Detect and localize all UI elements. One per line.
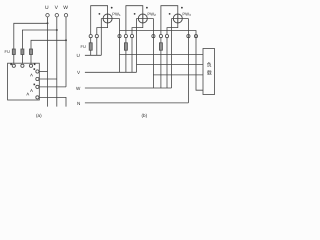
- supply terminal V: [55, 14, 58, 17]
- meter PW3: [173, 14, 182, 23]
- current coil vertical through PW2: [142, 14, 144, 23]
- wire fuse2 to V bus: [125, 50, 127, 72]
- meter PW1: [103, 14, 112, 23]
- voltage tap PW3 hook to W bus: [171, 19, 173, 89]
- polarity dot left PW3: [169, 13, 171, 15]
- wire V drop: [56, 17, 58, 107]
- load box: [203, 49, 215, 95]
- bus W: [85, 87, 172, 89]
- voltage line PW2: [137, 18, 154, 20]
- wire U drop: [47, 17, 49, 107]
- polarity dot above t3: [34, 84, 36, 86]
- fuse phase V: [21, 49, 24, 55]
- polarity dot left PW2: [134, 13, 136, 15]
- voltage drop PW3 to N bus: [187, 19, 189, 103]
- svg-text:V: V: [77, 70, 81, 75]
- svg-text:FU: FU: [81, 44, 86, 49]
- voltage line PW1: [101, 18, 119, 20]
- terminal rail drop: [194, 35, 197, 38]
- svg-text:载: 载: [207, 69, 212, 76]
- polarity dot above t1: [34, 68, 36, 70]
- current loop PW1: [91, 6, 108, 35]
- node W fuse branch: [65, 39, 67, 41]
- voltage drop PW2: [152, 19, 154, 89]
- svg-text:U: U: [45, 5, 49, 11]
- meter terminal 3 top: [29, 64, 32, 67]
- terminal voltage drop 1: [118, 35, 121, 38]
- svg-text:(a): (a): [36, 113, 42, 118]
- wire fuse W to meter: [30, 55, 32, 64]
- current loop PW3: [161, 6, 178, 35]
- wire P1 to fuse unit3: [160, 38, 162, 43]
- bus N: [85, 102, 188, 104]
- polarity dot top PW2: [146, 7, 148, 9]
- polarity dot right of terminal 3: [34, 64, 36, 66]
- node U fuse branch: [47, 22, 49, 24]
- wire P1 to fuse unit1: [90, 38, 92, 43]
- coil mark 1: [30, 74, 32, 77]
- fuse unit1: [89, 43, 92, 50]
- meter terminal 1 top: [12, 64, 15, 67]
- meter terminal t3 right: [36, 85, 39, 88]
- bus U: [85, 54, 101, 56]
- current return PW2: [132, 23, 143, 34]
- wire fuse3 to W bus: [160, 50, 162, 88]
- meter box (a): [8, 63, 40, 100]
- voltage line PW3: [172, 18, 189, 20]
- coil mark 2: [30, 89, 32, 92]
- wire t3 to W drop: [39, 86, 66, 88]
- voltage tap PW2 hook to V bus: [136, 19, 138, 73]
- terminal P1 unit3: [159, 35, 162, 38]
- current loop PW2: [126, 6, 143, 35]
- polarity dot left of terminal 1: [10, 64, 12, 66]
- wire fuse V to meter: [21, 55, 23, 64]
- svg-text:FU: FU: [5, 49, 10, 54]
- wire W drop: [65, 17, 67, 87]
- fuse unit3: [159, 43, 162, 50]
- terminal P2 unit2: [130, 35, 133, 38]
- wire U branch to fuse: [14, 23, 48, 49]
- wire V branch to fuse: [22, 30, 56, 49]
- svg-text:U: U: [77, 53, 80, 58]
- coil mark 3: [27, 93, 29, 96]
- wire P1 to fuse unit2: [125, 38, 127, 43]
- wire fuse U to meter: [13, 55, 15, 64]
- neutral rail of voltage coils: [120, 31, 204, 91]
- meter terminal t4 right: [36, 96, 39, 99]
- wire P2 unit2 to V bus: [131, 38, 133, 73]
- node V fuse branch: [56, 29, 58, 31]
- meter terminal t2 right: [36, 77, 39, 80]
- fuse phase W: [30, 49, 33, 55]
- meter PW2: [138, 14, 147, 23]
- wire P2 unit3 to W bus: [166, 38, 168, 88]
- current coil vertical through PW1: [107, 14, 109, 23]
- terminal voltage drop 2: [152, 35, 155, 38]
- wire t1 to U drop: [39, 71, 48, 73]
- wire fuse1 to U bus: [90, 50, 92, 55]
- svg-text:(b): (b): [142, 113, 148, 118]
- polarity dot top PW1: [111, 7, 113, 9]
- wire W branch to fuse: [31, 40, 66, 49]
- voltage tap PW1 to U bus: [100, 19, 102, 56]
- voltage drop PW1: [119, 19, 121, 73]
- svg-text:W: W: [63, 5, 68, 11]
- load line 3 to box: [153, 74, 203, 76]
- meter terminal t1 right: [36, 70, 39, 73]
- current coil vertical through PW3: [177, 14, 179, 23]
- current return PW3: [167, 23, 178, 34]
- terminal voltage drop 3: [187, 35, 190, 38]
- load line 2 to box: [137, 63, 204, 65]
- terminal P1 unit1: [89, 35, 92, 38]
- wire t4 neutral out: [39, 97, 66, 106]
- terminal P2 unit3: [165, 35, 168, 38]
- svg-text:PW3: PW3: [182, 11, 191, 17]
- polarity dot left PW1: [99, 13, 101, 15]
- load line 1 to box: [120, 53, 204, 55]
- svg-text:PW2: PW2: [147, 11, 156, 17]
- supply terminal W: [64, 14, 67, 17]
- polarity dot top PW3: [181, 7, 183, 9]
- current return PW1: [97, 23, 108, 34]
- wire t2 to V drop: [39, 78, 57, 80]
- svg-text:V: V: [55, 5, 59, 11]
- terminal P2 unit1: [95, 35, 98, 38]
- svg-text:W: W: [76, 86, 81, 91]
- wire P2 unit1 to U bus: [96, 38, 98, 56]
- svg-text:N: N: [77, 101, 80, 106]
- svg-text:负: 负: [207, 61, 212, 68]
- supply terminal U: [46, 14, 49, 17]
- svg-text:PW1: PW1: [112, 11, 121, 17]
- fuse FU phase U: [12, 49, 15, 55]
- fuse unit2: [124, 43, 127, 50]
- bus V: [85, 71, 137, 73]
- terminal P1 unit2: [124, 35, 127, 38]
- meter terminal 2 top: [21, 64, 24, 67]
